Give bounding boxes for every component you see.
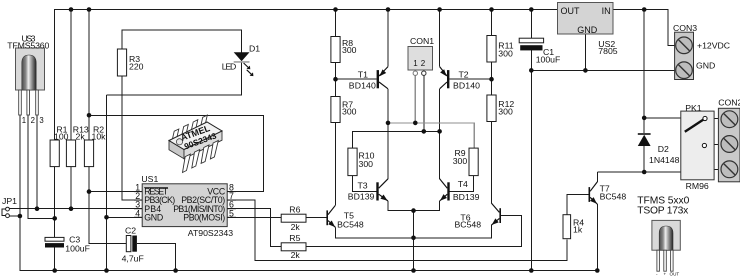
svg-text:4,7uF: 4,7uF [122,254,144,264]
svg-text:CON3: CON3 [673,23,697,33]
svg-text:2: 2 [421,59,426,68]
svg-text:300: 300 [453,156,468,166]
svg-text:AT90S2343: AT90S2343 [188,228,233,238]
svg-text:BD139: BD139 [453,192,480,202]
svg-text:3: 3 [39,116,43,125]
svg-text:300: 300 [342,45,357,55]
svg-text:CON1: CON1 [410,36,434,46]
svg-text:2k: 2k [291,222,301,232]
svg-text:220: 220 [129,62,144,72]
svg-text:4: 4 [135,208,140,218]
svg-text:300: 300 [359,159,374,169]
svg-text:2: 2 [31,116,35,125]
svg-text:D2: D2 [658,144,669,154]
svg-text:PK1: PK1 [685,103,702,113]
svg-text:C2: C2 [125,226,136,236]
svg-text:BC548: BC548 [455,220,482,230]
svg-text:2k: 2k [76,131,86,141]
svg-text:OUT: OUT [561,6,581,16]
svg-text:TSOP 173x: TSOP 173x [637,206,689,217]
svg-text:100: 100 [54,131,69,141]
svg-text:R5: R5 [289,233,300,243]
svg-text:BD140: BD140 [349,80,376,90]
svg-text:T2: T2 [459,69,469,79]
svg-text:1: 1 [413,59,418,68]
svg-text:CON2: CON2 [718,98,740,108]
svg-text:1: 1 [22,116,26,125]
svg-text:100uF: 100uF [536,55,561,65]
svg-text:300: 300 [342,107,357,117]
svg-text:7805: 7805 [598,46,617,56]
svg-text:LED: LED [222,61,237,71]
svg-text:1N4148: 1N4148 [649,155,680,165]
svg-text:BC548: BC548 [600,192,627,202]
svg-text:T3: T3 [358,181,368,191]
svg-text:+12VDC: +12VDC [697,41,730,51]
svg-text:IN: IN [602,6,611,16]
svg-text:100uF: 100uF [65,244,90,254]
svg-text:BC548: BC548 [337,220,364,230]
svg-text:R6: R6 [289,205,300,215]
svg-text:10k: 10k [92,131,107,141]
svg-text:T4: T4 [458,179,468,189]
svg-text:1k: 1k [573,224,583,234]
svg-text:RM96: RM96 [686,181,709,191]
svg-text:BD140: BD140 [453,80,480,90]
svg-text:300: 300 [498,48,513,58]
svg-text:300: 300 [498,107,513,117]
svg-text:OUT: OUT [670,272,680,277]
svg-text:T1: T1 [358,69,368,79]
svg-text:2k: 2k [291,250,301,260]
svg-text:5: 5 [229,208,234,218]
svg-text:BD139: BD139 [348,192,375,202]
svg-text:PB0(MOSI): PB0(MOSI) [183,212,225,222]
svg-text:GND: GND [144,212,163,222]
svg-text:+: + [664,272,667,277]
svg-text:US1: US1 [141,174,158,184]
svg-text:TFMS5360: TFMS5360 [7,41,49,51]
svg-text:GND: GND [696,60,715,70]
svg-text:D1: D1 [249,43,260,53]
svg-text:GND: GND [577,25,598,35]
svg-text:JP1: JP1 [2,196,17,206]
